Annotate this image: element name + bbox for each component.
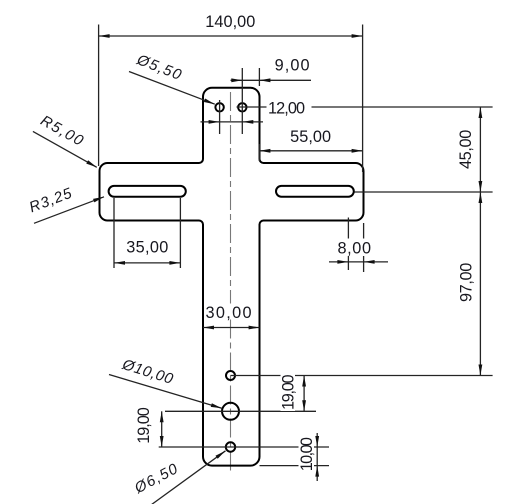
leader D6,50: [152, 451, 226, 504]
dim line 19,00 right: [303, 376, 305, 412]
dim line 30,00: [203, 327, 260, 329]
ext line 9,00 right-hole: [241, 68, 243, 134]
ext line 55 tab: [258, 144, 260, 161]
svg-text:19,00: 19,00: [135, 407, 153, 444]
row line big hole: [165, 410, 316, 412]
ext line 12 left-hole: [219, 100, 221, 134]
svg-text:97,00: 97,00: [457, 263, 475, 302]
svg-text:30,00: 30,00: [206, 304, 252, 322]
text 8,00: [336, 239, 371, 257]
ext line 140 left: [98, 25, 100, 167]
ext line 9,00 tab edge: [258, 68, 260, 86]
hole top-right: [238, 103, 246, 111]
dim line 19,00 left: [161, 411, 163, 447]
row line hole-row with text gap: [237, 106, 267, 108]
svg-text:9,00: 9,00: [275, 57, 310, 75]
text 10,00: [299, 436, 315, 474]
part outline: [100, 88, 364, 466]
svg-text:55,00: 55,00: [290, 128, 331, 146]
row line bottom edge: [260, 465, 330, 467]
ext line 140/55 right: [362, 25, 364, 173]
dim line 10,00: [316, 433, 318, 481]
centerline vertical: [230, 92, 232, 304]
dim line 9,00: [231, 79, 312, 81]
dim line 12,00: [201, 121, 264, 123]
hole top-left: [215, 103, 223, 111]
leader D5,50: [129, 72, 215, 105]
svg-text:12,00: 12,00: [268, 100, 305, 118]
row line small hole bottom: [231, 375, 493, 377]
ext lines 35,00: [113, 198, 115, 268]
svg-text:8,00: 8,00: [338, 240, 372, 258]
dim line 35,00: [114, 262, 180, 264]
slot left: [109, 186, 186, 197]
ext lines 8,00: [347, 218, 349, 271]
text 19,00 right: [281, 373, 296, 411]
dim line 45,00 and 97,00: [479, 107, 481, 376]
dim line 55,00: [259, 150, 362, 152]
row line bottom hole: [159, 446, 329, 448]
leader R5,00: [33, 131, 97, 167]
hole column big: [222, 403, 239, 420]
dim line 140: [99, 35, 363, 37]
leader R3,25: [34, 197, 104, 224]
slot right: [276, 186, 354, 197]
svg-text:35,00: 35,00: [126, 239, 168, 257]
svg-text:10,00: 10,00: [298, 437, 316, 471]
svg-text:140,00: 140,00: [205, 13, 255, 31]
svg-text:45,00: 45,00: [457, 130, 475, 169]
svg-text:19,00: 19,00: [280, 374, 298, 410]
dim line 8,00: [329, 261, 388, 263]
hole column small: [226, 371, 235, 380]
hole column bottom: [226, 442, 235, 451]
leader D10,00: [109, 375, 222, 409]
row line slot-row right: [355, 191, 493, 193]
